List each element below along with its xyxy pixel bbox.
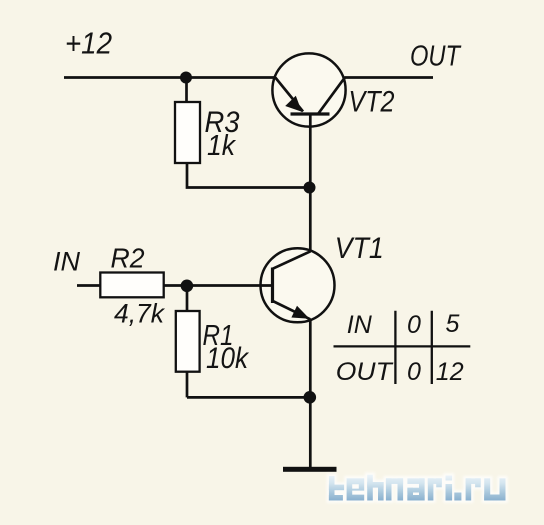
svg-text:IN: IN bbox=[53, 247, 81, 277]
svg-text:1k: 1k bbox=[207, 130, 236, 162]
svg-text:OUT: OUT bbox=[410, 41, 462, 73]
svg-text:4,7k: 4,7k bbox=[114, 299, 165, 329]
svg-text:+12: +12 bbox=[65, 26, 112, 61]
svg-text:IN: IN bbox=[347, 311, 373, 339]
svg-text:12: 12 bbox=[436, 358, 464, 386]
svg-text:R2: R2 bbox=[111, 243, 145, 274]
svg-text:0: 0 bbox=[407, 311, 421, 339]
svg-text:OUT: OUT bbox=[336, 358, 394, 386]
svg-text:0: 0 bbox=[407, 358, 421, 386]
svg-text:VT2: VT2 bbox=[349, 86, 395, 119]
svg-text:VT1: VT1 bbox=[335, 232, 384, 265]
svg-text:5: 5 bbox=[446, 310, 460, 338]
svg-text:10k: 10k bbox=[206, 342, 250, 375]
